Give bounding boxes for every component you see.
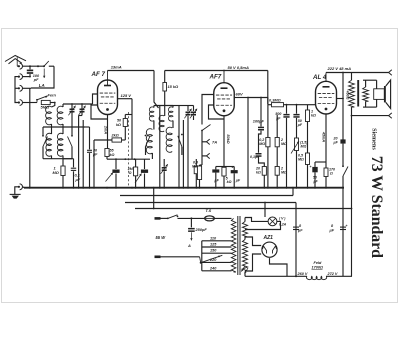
IF block top frame bbox=[154, 105, 173, 107]
output transformer secondary bbox=[363, 87, 369, 101]
svg-text:kΩ: kΩ bbox=[311, 114, 316, 118]
tap 220 bbox=[202, 261, 232, 263]
resistor 2k bbox=[94, 139, 112, 141]
tap 240 bbox=[202, 270, 232, 272]
125V label bbox=[118, 98, 133, 100]
svg-text:kΩ: kΩ bbox=[116, 123, 121, 127]
antenna jack 3 bbox=[18, 87, 19, 89]
resistor 0,2M bbox=[135, 159, 137, 167]
line heater 2 bbox=[125, 202, 296, 204]
long vertical 3 bbox=[182, 120, 184, 188]
AVC node line bbox=[107, 158, 150, 160]
voice coil box bbox=[374, 89, 385, 100]
cathode resistor 5k bbox=[222, 167, 226, 176]
AVC dashed line bbox=[128, 112, 130, 188]
svg-text:45mA: 45mA bbox=[322, 131, 326, 143]
IF T1 secondary coil bbox=[146, 129, 152, 154]
svg-text:kΩ: kΩ bbox=[227, 180, 232, 184]
heater center tap arrows bbox=[241, 266, 245, 272]
speaker jack top bbox=[389, 70, 392, 73]
resistor 0,5M bbox=[306, 153, 310, 165]
tap 150 bbox=[202, 252, 232, 254]
svg-text:50kΩ: 50kΩ bbox=[226, 134, 230, 143]
svg-text:73 W Standard: 73 W Standard bbox=[368, 156, 385, 258]
band switch S2 bbox=[71, 127, 73, 135]
wire HT right bbox=[342, 188, 344, 277]
speaker cone bbox=[386, 80, 391, 109]
cathode wire 2mA bbox=[107, 115, 109, 139]
svg-text:AF7: AF7 bbox=[209, 74, 222, 81]
IF T2 primary coil bbox=[168, 107, 173, 121]
HV winding bbox=[242, 240, 247, 272]
resistor 2M a bbox=[276, 115, 278, 138]
IF switch S4 bbox=[181, 134, 183, 136]
trimmer capacitor C-T2 bbox=[81, 104, 83, 109]
grid return tube2 bbox=[202, 95, 214, 125]
svg-text:Fern: Fern bbox=[48, 93, 57, 98]
svg-text:55 W: 55 W bbox=[156, 235, 167, 240]
50V rail bbox=[165, 70, 268, 72]
speaker jack bottom bbox=[389, 113, 392, 116]
capacitor 30pF bbox=[89, 127, 91, 149]
antenna jack 2 bbox=[18, 76, 19, 78]
long vertical 2 bbox=[178, 106, 180, 188]
antenna coil L1 bbox=[52, 103, 55, 108]
capacitor 20uF bbox=[342, 73, 344, 140]
pickup jack 7A bbox=[207, 139, 210, 142]
svg-text:110: 110 bbox=[210, 236, 217, 240]
pilot lamp bbox=[244, 218, 246, 222]
svg-text:kΩ: kΩ bbox=[110, 153, 115, 157]
capacitor 8uF a bbox=[293, 226, 299, 228]
screen wire bbox=[131, 99, 133, 160]
svg-text:450Ω: 450Ω bbox=[346, 90, 350, 100]
svg-text:MΩ: MΩ bbox=[259, 142, 265, 146]
coil block frame bottom bbox=[43, 158, 72, 160]
cathode cap 2 bbox=[231, 170, 238, 173]
svg-text:µF: µF bbox=[75, 177, 81, 182]
mains terminal 2 bbox=[155, 255, 161, 258]
resistor 55k bbox=[107, 138, 109, 149]
main antenna down-wire bbox=[29, 88, 31, 187]
60V feed wire bbox=[248, 97, 268, 99]
tube AF7 (1) bbox=[98, 80, 118, 115]
bus junction dots bbox=[29, 187, 31, 189]
resistor low IF bbox=[194, 166, 198, 173]
svg-text:250pF: 250pF bbox=[195, 227, 208, 232]
speaker diaphragm bbox=[384, 86, 386, 102]
svg-text:0,3MΩ: 0,3MΩ bbox=[269, 98, 281, 103]
svg-text:µF: µF bbox=[214, 179, 220, 183]
resistor 20k bbox=[262, 167, 266, 176]
padder capacitor 1 bbox=[115, 159, 117, 169]
tube AL4 bbox=[316, 81, 337, 114]
line heater 1 bbox=[120, 195, 293, 197]
op wire left tube1 bbox=[91, 105, 108, 119]
resistor 1M bbox=[62, 159, 64, 166]
resistor 0,2M bbox=[267, 98, 269, 138]
resistor 50k bbox=[123, 119, 127, 127]
svg-text:1700Ω: 1700Ω bbox=[312, 266, 323, 270]
svg-text:MΩ: MΩ bbox=[298, 158, 304, 162]
trimmer capacitor C-T1 bbox=[63, 103, 93, 105]
power transformer core bbox=[237, 216, 239, 275]
antenna bbox=[5, 56, 26, 62]
wire speaker return bbox=[351, 116, 353, 277]
tap 125 bbox=[202, 246, 232, 248]
svg-text:LA: LA bbox=[39, 83, 45, 88]
svg-text:AF 7: AF 7 bbox=[91, 71, 106, 78]
resistor 15k bbox=[164, 71, 166, 83]
IF trimmer 1 bbox=[173, 105, 188, 107]
ground symbol bbox=[10, 193, 21, 195]
resistor 2M b bbox=[275, 167, 279, 176]
svg-text:60V: 60V bbox=[236, 92, 243, 97]
tone switch bbox=[343, 167, 348, 177]
coil block frame top bbox=[51, 124, 53, 127]
svg-text:2mA: 2mA bbox=[104, 125, 108, 134]
wire jack1 to switch LA bbox=[23, 65, 45, 67]
padder capacitor 2 bbox=[144, 159, 146, 169]
trimmer low bbox=[162, 167, 167, 169]
resistor 5M&#937; bbox=[41, 100, 50, 104]
resistor 1k bbox=[306, 110, 310, 122]
wave band coil L4 bbox=[57, 133, 63, 156]
cathode cap 1 bbox=[212, 169, 219, 172]
wave band coil L3 bbox=[46, 133, 52, 156]
switch LA bbox=[44, 61, 49, 66]
svg-text:2kΩ: 2kΩ bbox=[111, 134, 119, 138]
capacitor 0,1uF bbox=[73, 159, 75, 168]
pickup jack 2 bbox=[207, 153, 210, 156]
svg-text:240: 240 bbox=[209, 266, 217, 270]
IF switch S3 bbox=[145, 135, 147, 137]
svg-text:Ω: Ω bbox=[329, 172, 333, 176]
detector switch bbox=[201, 130, 203, 132]
antenna jack 4 bbox=[18, 102, 19, 104]
AL4 cathode 45mA bbox=[325, 114, 327, 168]
AZ1 anode wires bbox=[244, 236, 246, 240]
capacitor 100pF bbox=[29, 66, 31, 69]
svg-text:150: 150 bbox=[210, 249, 217, 253]
IF coupling coil bbox=[159, 115, 164, 131]
ground jack bbox=[20, 184, 23, 190]
60V label bbox=[234, 97, 248, 99]
transformer core bbox=[357, 80, 359, 107]
svg-text:125 V: 125 V bbox=[121, 93, 132, 98]
svg-text:Siemens: Siemens bbox=[371, 128, 378, 150]
mains terminal 1 bbox=[155, 217, 161, 220]
top cap wire 13mA bbox=[107, 71, 109, 81]
gang line 2 bbox=[82, 120, 84, 188]
svg-text:100µF: 100µF bbox=[253, 119, 265, 124]
secondary loop bbox=[363, 79, 377, 81]
svg-text:µF: µF bbox=[329, 229, 335, 233]
svg-text:222 V 48 mA: 222 V 48 mA bbox=[327, 66, 352, 71]
voltage selector taps bbox=[201, 241, 203, 271]
svg-text:µF: µF bbox=[313, 179, 319, 183]
svg-text:µF: µF bbox=[297, 229, 303, 233]
svg-text:260 V: 260 V bbox=[297, 272, 308, 276]
svg-text:pF: pF bbox=[33, 78, 39, 82]
svg-text:272 V: 272 V bbox=[327, 272, 338, 276]
HT vertical bbox=[295, 203, 297, 277]
svg-text:+: + bbox=[346, 224, 348, 228]
tube AF7 (2) bbox=[214, 83, 235, 116]
svg-text:AL 4: AL 4 bbox=[312, 74, 327, 81]
long vertical 1 bbox=[159, 106, 161, 188]
tap 110 bbox=[202, 240, 232, 242]
wire screen drop bbox=[247, 98, 249, 188]
svg-text:T.S: T.S bbox=[206, 208, 212, 213]
field coil bumps bbox=[307, 276, 327, 279]
mains switch bbox=[167, 218, 169, 220]
svg-text:µF: µF bbox=[297, 123, 303, 127]
switch Fern bbox=[36, 100, 38, 103]
screen wire AL4 bbox=[337, 98, 344, 100]
cathode tube2 bbox=[223, 116, 225, 166]
svg-text:MΩ: MΩ bbox=[301, 145, 307, 149]
cathode resistor 170 bbox=[324, 168, 328, 177]
svg-text:µF: µF bbox=[92, 153, 98, 157]
svg-text:µF: µF bbox=[275, 116, 281, 120]
svg-text:µF: µF bbox=[333, 141, 339, 145]
svg-text:AZ1: AZ1 bbox=[263, 235, 274, 241]
top rail to jack bbox=[326, 72, 389, 74]
capacitor 250pF bbox=[190, 217, 192, 219]
voltage selector blade bbox=[183, 256, 200, 258]
222V rail bbox=[325, 73, 327, 82]
svg-text:( V ): ( V ) bbox=[279, 217, 286, 221]
AL4 grid wire bbox=[308, 104, 316, 106]
svg-text:Feld: Feld bbox=[314, 261, 322, 265]
bottom rail bbox=[245, 275, 307, 277]
anode feed to IF transformer bbox=[154, 71, 159, 109]
svg-text:50 V 0,5mA: 50 V 0,5mA bbox=[228, 65, 249, 70]
svg-text:7A: 7A bbox=[212, 140, 217, 145]
heater winding bbox=[242, 222, 247, 238]
AZ1 cathode out bbox=[270, 258, 288, 276]
output transformer primary bbox=[351, 73, 353, 81]
cathode bypass cap bbox=[312, 167, 317, 172]
IF trimmer 2 bbox=[188, 105, 194, 107]
svg-text:µF: µF bbox=[235, 179, 241, 183]
antenna jack 1 bbox=[16, 64, 18, 66]
IF T2 secondary coil bbox=[166, 127, 172, 152]
svg-text:125: 125 bbox=[210, 243, 217, 247]
svg-text:+: + bbox=[232, 165, 234, 169]
rail drop right bbox=[267, 71, 269, 104]
svg-text:MΩ: MΩ bbox=[53, 170, 59, 175]
band switch S1 bbox=[42, 127, 44, 135]
svg-text:+: + bbox=[310, 165, 312, 169]
svg-text:A: A bbox=[187, 243, 191, 248]
IF T1 primary coil bbox=[149, 107, 154, 121]
jack bracket bbox=[15, 77, 18, 103]
svg-text:15 kΩ: 15 kΩ bbox=[168, 84, 179, 89]
gang line 1 bbox=[78, 116, 80, 188]
svg-text:13mA: 13mA bbox=[111, 65, 122, 70]
line HT return bbox=[135, 208, 352, 210]
svg-text:220: 220 bbox=[209, 258, 217, 262]
svg-text:kΩ: kΩ bbox=[256, 171, 261, 175]
grid wire to tube 1 bbox=[93, 94, 98, 104]
ground bus bbox=[24, 187, 344, 189]
tuning coil L2 bbox=[57, 106, 63, 125]
power transformer primary bbox=[231, 218, 236, 272]
potentiometer 1,5M bbox=[295, 138, 299, 151]
wire LA right leg bbox=[31, 66, 54, 88]
